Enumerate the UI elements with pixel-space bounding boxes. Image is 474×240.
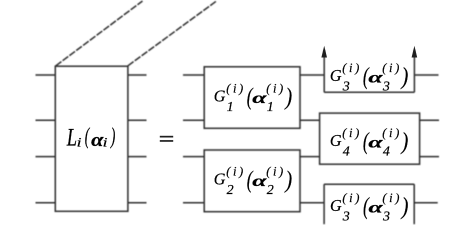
svg-text:(i): (i) bbox=[342, 61, 362, 75]
wire 2 right of L box bbox=[128, 119, 147, 121]
box G3 top: right edge rising into arrow shaft bbox=[413, 50, 415, 92]
svg-text:G: G bbox=[214, 169, 226, 188]
wire 2 into G1 bbox=[183, 119, 204, 121]
svg-text:3: 3 bbox=[382, 210, 390, 225]
wire 3 right stub bbox=[420, 156, 439, 158]
svg-text:2: 2 bbox=[267, 183, 274, 198]
wire 3 right of L box bbox=[128, 156, 147, 158]
wire 2 right stub bbox=[420, 119, 439, 121]
box G3 bottom: top edge bbox=[324, 183, 414, 185]
wire 1 between G1 and G3 top bbox=[300, 74, 324, 76]
svg-text:G: G bbox=[330, 65, 342, 84]
box G4 bbox=[320, 113, 420, 164]
arrowhead on G3 top right edge bbox=[412, 46, 418, 58]
svg-text:(i): (i) bbox=[382, 61, 402, 75]
svg-text:(i): (i) bbox=[382, 126, 402, 140]
arrowhead on G3 top left edge bbox=[321, 46, 327, 58]
svg-text:): ) bbox=[400, 62, 409, 89]
dashed line from L box top-left corner bbox=[56, 1, 143, 66]
box G3 bottom: right edge (cropped by figure edge) bbox=[413, 184, 415, 224]
box G2 bbox=[204, 150, 300, 212]
wire 4 right stub bbox=[414, 202, 438, 204]
label G3top(alpha3) bbox=[330, 61, 408, 95]
svg-text:G: G bbox=[330, 130, 342, 149]
svg-text:): ) bbox=[284, 83, 293, 110]
wire 4 between G2 and G3 bottom bbox=[300, 202, 324, 204]
svg-text:): ) bbox=[400, 192, 409, 219]
equals sign bbox=[160, 136, 173, 142]
svg-text:i: i bbox=[77, 136, 82, 150]
box G3 bottom: left edge (cropped by figure edge) bbox=[323, 184, 325, 224]
label G1(alpha1) bbox=[214, 81, 292, 115]
label L_i(alpha_i) bbox=[66, 123, 115, 151]
wire 4 left stub bbox=[36, 202, 56, 204]
wire 1 right stub bbox=[414, 74, 438, 76]
svg-text:(i): (i) bbox=[226, 164, 246, 178]
svg-text:i: i bbox=[103, 136, 108, 150]
svg-text:): ) bbox=[400, 127, 409, 154]
wire 3 left stub bbox=[36, 156, 56, 158]
box L_i(alpha_i) bbox=[55, 66, 128, 211]
wire 3 into G2 bbox=[183, 156, 204, 158]
wire 3 between G2 and G4 bbox=[300, 156, 320, 158]
svg-text:2: 2 bbox=[227, 183, 234, 198]
wire 4 right of L box bbox=[128, 202, 147, 204]
svg-text:3: 3 bbox=[382, 80, 390, 95]
svg-text:1: 1 bbox=[227, 100, 234, 115]
svg-text:(i): (i) bbox=[266, 81, 286, 95]
wire 1 into G1 bbox=[183, 74, 204, 76]
svg-text:(i): (i) bbox=[266, 164, 286, 178]
wire 2 between G1 and G4 bbox=[300, 119, 320, 121]
svg-text:(i): (i) bbox=[342, 126, 362, 140]
svg-text:G: G bbox=[214, 86, 226, 105]
svg-text:(i): (i) bbox=[226, 81, 246, 95]
svg-text:): ) bbox=[110, 124, 115, 149]
label G2(alpha2) bbox=[214, 164, 292, 198]
svg-text:4: 4 bbox=[383, 145, 390, 160]
label G4(alpha4) bbox=[330, 126, 408, 160]
box G3 top: bottom edge bbox=[324, 91, 414, 93]
wire 4 into G2 bbox=[183, 202, 204, 204]
svg-text:): ) bbox=[284, 166, 293, 193]
wire 1 left stub bbox=[36, 74, 56, 76]
dashed line from L box top-right corner bbox=[128, 1, 217, 66]
svg-text:(i): (i) bbox=[382, 191, 402, 205]
svg-text:G: G bbox=[330, 195, 342, 214]
wire 2 left stub bbox=[36, 119, 56, 121]
svg-text:3: 3 bbox=[342, 210, 350, 225]
svg-text:L: L bbox=[66, 123, 77, 151]
label G3bottom(alpha3) bbox=[330, 191, 408, 225]
wire 1 right of L box bbox=[128, 74, 147, 76]
svg-text:(i): (i) bbox=[342, 191, 362, 205]
svg-text:4: 4 bbox=[343, 145, 350, 160]
svg-text:1: 1 bbox=[267, 100, 274, 115]
svg-text:3: 3 bbox=[342, 80, 350, 95]
box G3 top: left edge rising into arrow shaft bbox=[323, 50, 325, 92]
box G1 bbox=[204, 67, 300, 129]
